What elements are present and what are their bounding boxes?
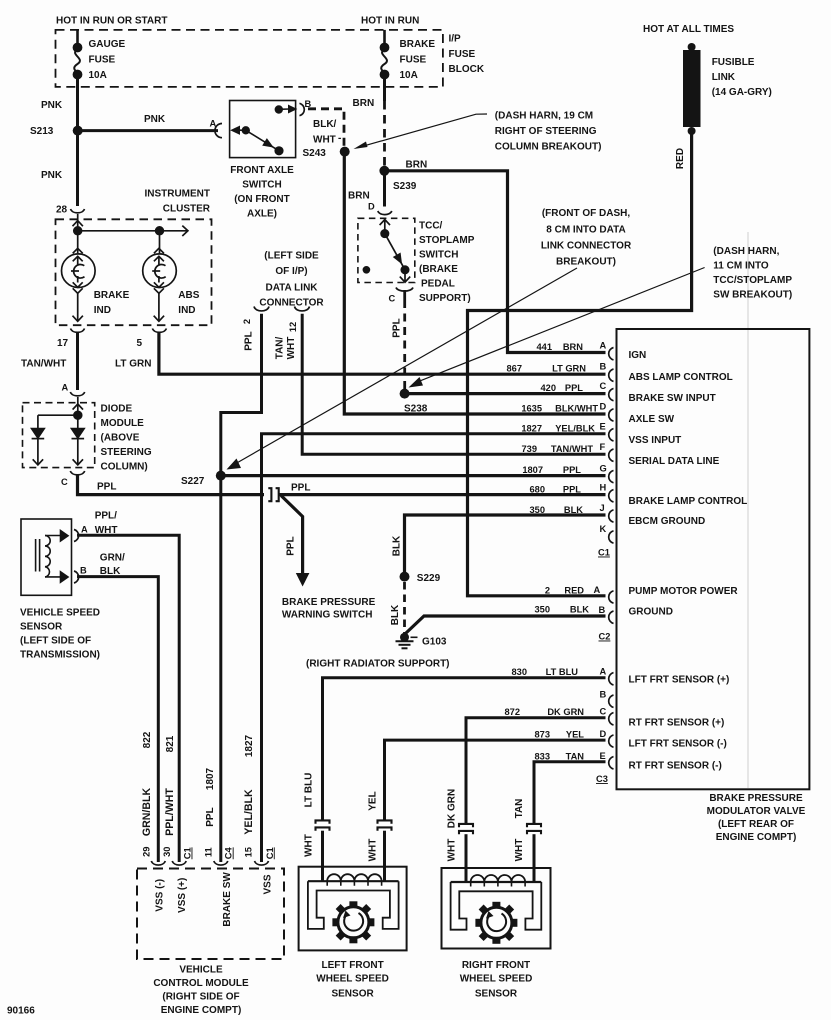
wire TAN/WHT DLC12 to pin F row	[302, 314, 605, 454]
svg-text:BRAKE SW INPUT: BRAKE SW INPUT	[629, 393, 716, 404]
wire BRN S239 to pin A row	[384, 171, 605, 353]
VCM pin 15	[255, 861, 269, 865]
svg-text:DK GRN: DK GRN	[547, 707, 584, 717]
wire PNK S213 to front axle switch A	[78, 129, 218, 132]
svg-text:IND: IND	[178, 305, 195, 316]
svg-text:YEL: YEL	[566, 730, 584, 740]
connector break left sensor wire 2	[378, 820, 392, 823]
connector break on PPL wire	[268, 488, 271, 501]
svg-text:BLOCK: BLOCK	[449, 64, 485, 75]
svg-text:822: 822	[142, 731, 153, 748]
svg-text:CONTROL MODULE: CONTROL MODULE	[153, 978, 249, 989]
svg-text:TCC/: TCC/	[419, 221, 443, 232]
svg-text:1827: 1827	[244, 734, 255, 757]
svg-text:RED: RED	[564, 586, 584, 596]
svg-text:739: 739	[521, 444, 537, 454]
svg-text:PPL/: PPL/	[95, 511, 117, 522]
svg-text:VEHICLE: VEHICLE	[179, 965, 223, 976]
wire 1807 PPL S227 to pin G row	[221, 474, 606, 477]
leader (DASH HARN, 11 CM INTO TCC/STOPLAMP SW BREAKOUT)	[414, 268, 705, 384]
svg-text:SENSOR: SENSOR	[20, 622, 63, 633]
label BRAKE PRESSURE MODULATOR VALVE (LEFT REAR OF ENGINE COMPT)	[707, 793, 806, 843]
svg-text:PPL: PPL	[205, 807, 216, 826]
svg-text:LT BLU: LT BLU	[304, 773, 315, 808]
label 680 PPL	[529, 485, 581, 495]
label 867 LT GRN	[506, 364, 586, 374]
svg-text:PPL: PPL	[565, 383, 583, 393]
wire RED fusible link to pump motor power pin A	[468, 131, 692, 596]
svg-text:PPL: PPL	[97, 482, 116, 493]
svg-text:J: J	[600, 503, 605, 513]
diode module box	[23, 403, 95, 468]
svg-text:VSS: VSS	[263, 874, 274, 894]
svg-text:INSTRUMENT: INSTRUMENT	[144, 189, 210, 200]
svg-text:BLK/: BLK/	[313, 119, 337, 130]
svg-text:YEL: YEL	[367, 791, 378, 810]
svg-text:H: H	[600, 483, 607, 493]
VCM pin 30	[172, 861, 186, 865]
svg-text:30: 30	[162, 847, 172, 857]
label FRONT AXLE SWITCH (ON FRONT AXLE)	[230, 165, 294, 220]
wire WHT into left sensor	[321, 831, 324, 881]
svg-text:680: 680	[529, 485, 545, 495]
svg-text:PPL: PPL	[392, 318, 403, 337]
diode module internals	[32, 397, 85, 465]
svg-text:WHT: WHT	[367, 839, 378, 862]
svg-text:BREAKOUT): BREAKOUT)	[556, 257, 616, 268]
svg-text:441: 441	[536, 342, 552, 352]
label 1635 BLK/WHT	[521, 404, 598, 414]
right sensor tone ring	[475, 902, 517, 944]
svg-text:F: F	[600, 442, 606, 452]
svg-text:LFT FRT SENSOR (-): LFT FRT SENSOR (-)	[629, 739, 727, 750]
node S239	[379, 166, 389, 176]
label 420 PPL	[540, 383, 583, 393]
svg-text:ABS LAMP CONTROL: ABS LAMP CONTROL	[629, 372, 733, 383]
svg-text:PPL/WHT: PPL/WHT	[164, 788, 176, 836]
svg-text:WHT: WHT	[304, 834, 315, 857]
label 2 RED	[545, 586, 584, 596]
leader (DASH HARN, 19 CM RIGHT OF STEERING COLUMN BREAKOUT)	[358, 114, 487, 148]
svg-text:BRN: BRN	[406, 160, 428, 171]
svg-text:WHEEL SPEED: WHEEL SPEED	[460, 974, 533, 985]
svg-text:DK GRN: DK GRN	[447, 789, 458, 828]
svg-text:RIGHT OF STEERING: RIGHT OF STEERING	[495, 126, 597, 137]
svg-text:GROUND: GROUND	[629, 607, 673, 618]
ground G103	[400, 633, 409, 642]
svg-text:K: K	[600, 524, 607, 534]
svg-text:PNK: PNK	[41, 100, 63, 111]
label BRAKE IND	[94, 290, 130, 316]
label 1807 PPL	[522, 465, 581, 475]
front axle switch box	[230, 101, 296, 158]
svg-text:PNK: PNK	[41, 170, 63, 181]
svg-text:WHT: WHT	[447, 839, 458, 862]
connector C TCC switch	[396, 288, 413, 292]
label RIGHT FRONT WHEEL SPEED SENSOR	[460, 960, 533, 1000]
connector break right sensor wire 2	[527, 824, 541, 827]
svg-text:RT FRT SENSOR (+): RT FRT SENSOR (+)	[629, 718, 725, 729]
right front wheel speed sensor box	[442, 868, 551, 949]
svg-text:BLK/WHT: BLK/WHT	[555, 404, 598, 414]
connector pin 5	[152, 329, 166, 333]
svg-text:RIGHT FRONT: RIGHT FRONT	[462, 960, 530, 971]
svg-text:MODULE: MODULE	[101, 418, 145, 429]
svg-text:FUSE: FUSE	[400, 55, 427, 66]
svg-text:B: B	[599, 605, 606, 615]
svg-text:WHT: WHT	[313, 135, 336, 146]
svg-text:ABS: ABS	[178, 290, 199, 301]
lamp BRAKE IND	[62, 248, 96, 321]
svg-text:VSS (-): VSS (-)	[154, 879, 165, 912]
label DIODE MODULE (ABOVE STEERING COLUMN)	[101, 404, 152, 473]
svg-text:BRN: BRN	[353, 98, 375, 109]
svg-text:28: 28	[56, 205, 68, 216]
svg-text:S227: S227	[181, 476, 205, 487]
svg-text:HOT IN RUN: HOT IN RUN	[361, 16, 419, 27]
svg-text:830: 830	[511, 667, 527, 677]
svg-text:C: C	[600, 707, 607, 717]
svg-text:C4: C4	[224, 847, 234, 860]
label 739 TAN/WHT	[521, 444, 593, 454]
svg-text:CLUSTER: CLUSTER	[163, 204, 211, 215]
svg-text:AXLE SW: AXLE SW	[629, 414, 675, 425]
svg-text:PNK: PNK	[144, 114, 166, 125]
connector A VSS	[74, 530, 79, 542]
svg-text:COLUMN BREAKOUT): COLUMN BREAKOUT)	[495, 142, 602, 153]
svg-text:G103: G103	[422, 637, 447, 648]
wire PPL TCC C to S238 (dashed)	[403, 290, 406, 300]
svg-text:12: 12	[288, 322, 298, 332]
right sensor internals	[451, 875, 542, 930]
svg-text:COLUMN): COLUMN)	[101, 462, 148, 473]
svg-text:LT GRN: LT GRN	[552, 364, 586, 374]
svg-text:C3: C3	[596, 774, 608, 784]
svg-text:WARNING SWITCH: WARNING SWITCH	[282, 610, 373, 621]
svg-text:AXLE): AXLE)	[247, 209, 277, 220]
svg-text:867: 867	[506, 364, 522, 374]
wire BLK/WHT S243 down to pin D row	[344, 152, 605, 414]
label GRN/ BLK	[100, 553, 125, 578]
wire 873 YEL pin D C3 to left sensor	[385, 740, 606, 820]
svg-text:C: C	[61, 477, 68, 487]
svg-text:(BRAKE: (BRAKE	[419, 264, 458, 275]
label LEFT FRONT WHEEL SPEED SENSOR	[316, 960, 389, 1000]
svg-text:5: 5	[137, 338, 143, 349]
svg-text:GAUGE: GAUGE	[89, 39, 126, 50]
svg-text:1807: 1807	[205, 767, 216, 790]
node S227	[216, 471, 226, 481]
svg-text:TCC/STOPLAMP: TCC/STOPLAMP	[713, 275, 792, 286]
svg-text:S239: S239	[393, 181, 417, 192]
label INSTRUMENT CLUSTER	[144, 189, 210, 215]
wire 350 BLK pin J to S229	[405, 515, 606, 572]
svg-text:BRAKE PRESSURE: BRAKE PRESSURE	[709, 793, 803, 804]
svg-text:DATA LINK: DATA LINK	[265, 282, 318, 293]
svg-text:B: B	[600, 690, 607, 700]
svg-text:15: 15	[244, 847, 254, 857]
svg-text:PEDAL: PEDAL	[421, 279, 455, 290]
label PPL/ WHT	[95, 511, 118, 537]
svg-text:PUMP MOTOR POWER: PUMP MOTOR POWER	[629, 586, 739, 597]
svg-text:S229: S229	[417, 573, 441, 584]
connector B front axle switch	[300, 103, 305, 115]
svg-text:S213: S213	[30, 126, 54, 137]
svg-text:350: 350	[534, 605, 550, 615]
svg-text:LT GRN: LT GRN	[115, 359, 151, 370]
label DATA LINK CONNECTOR	[259, 251, 324, 309]
wire BRN brake fuse to S239 (dashed)	[383, 75, 386, 102]
svg-text:PPL: PPL	[291, 483, 310, 494]
svg-text:C1: C1	[265, 847, 275, 859]
svg-text:PPL: PPL	[563, 465, 581, 475]
svg-text:SWITCH: SWITCH	[419, 250, 458, 261]
connector B VSS	[74, 571, 79, 583]
wire PPL diode C to pin H row	[78, 475, 265, 495]
svg-text:BRAKE: BRAKE	[400, 39, 436, 50]
svg-text:IGN: IGN	[629, 350, 647, 361]
svg-text:YEL/BLK: YEL/BLK	[243, 789, 255, 835]
svg-text:(ON FRONT: (ON FRONT	[234, 194, 290, 205]
svg-text:(RIGHT RADIATOR SUPPORT): (RIGHT RADIATOR SUPPORT)	[306, 659, 450, 670]
svg-text:BRAKE LAMP CONTROL: BRAKE LAMP CONTROL	[629, 496, 748, 507]
svg-text:GRN/: GRN/	[100, 553, 125, 564]
svg-text:E: E	[600, 422, 606, 432]
label TCC/ STOPLAMP SWITCH (BRAKE PEDAL SUPPORT)	[419, 221, 475, 305]
lamp ABS IND	[143, 248, 177, 321]
label VEHICLE SPEED SENSOR (LEFT SIDE OF TRANSMISSION)	[20, 608, 100, 661]
wire PPL DLC2 to S227	[221, 314, 262, 471]
svg-text:LT BLU: LT BLU	[546, 667, 579, 677]
svg-text:S238: S238	[404, 404, 428, 415]
label ABS IND	[178, 290, 199, 316]
svg-text:C1: C1	[598, 548, 610, 558]
svg-text:B: B	[80, 566, 87, 576]
svg-text:29: 29	[141, 847, 151, 857]
svg-text:OF I/P): OF I/P)	[275, 266, 307, 277]
instrument cluster box	[56, 219, 212, 325]
svg-text:11 CM INTO: 11 CM INTO	[713, 261, 769, 272]
svg-text:C2: C2	[599, 632, 611, 642]
svg-text:BRAKE: BRAKE	[94, 290, 130, 301]
wire PPL break to pin H row	[278, 493, 606, 496]
svg-text:RT FRT SENSOR (-): RT FRT SENSOR (-)	[629, 761, 722, 772]
svg-text:S243: S243	[303, 148, 327, 159]
label 830 LT BLU	[511, 667, 578, 677]
svg-text:(FRONT OF DASH,: (FRONT OF DASH,	[542, 208, 631, 219]
BPMV box	[617, 329, 810, 789]
svg-text:E: E	[600, 751, 606, 761]
svg-text:873: 873	[534, 730, 550, 740]
svg-text:D: D	[600, 729, 607, 739]
node S243	[340, 147, 350, 157]
svg-text:FUSE: FUSE	[89, 55, 116, 66]
svg-text:C: C	[389, 294, 396, 304]
svg-text:1807: 1807	[522, 465, 543, 475]
connector DLC pin 12	[295, 307, 310, 311]
svg-text:VSS INPUT: VSS INPUT	[629, 435, 682, 446]
left sensor internals	[308, 874, 399, 929]
svg-text:1827: 1827	[521, 424, 542, 434]
svg-text:(LEFT SIDE OF: (LEFT SIDE OF	[20, 636, 91, 647]
svg-text:VEHICLE SPEED: VEHICLE SPEED	[20, 608, 100, 619]
svg-text:GRN/BLK: GRN/BLK	[141, 788, 153, 837]
svg-text:IND: IND	[94, 305, 111, 316]
svg-text:A: A	[600, 341, 607, 351]
svg-text:10A: 10A	[89, 70, 107, 81]
label 350 BLK	[529, 505, 583, 515]
svg-text:FRONT AXLE: FRONT AXLE	[230, 165, 294, 176]
label 1827 YEL/BLK	[521, 424, 595, 434]
svg-text:90166: 90166	[7, 1006, 35, 1017]
wire 833 TAN pin E C3 to right sensor	[534, 762, 606, 824]
wire 350 BLK G103 to pin B C2	[406, 616, 606, 634]
svg-text:(ABOVE: (ABOVE	[101, 433, 140, 444]
I/P fuse block box	[56, 30, 443, 87]
svg-text:TAN/WHT: TAN/WHT	[21, 359, 66, 370]
wire LT GRN pin5 to pin B row	[159, 333, 606, 374]
svg-text:833: 833	[534, 752, 550, 762]
svg-text:TRANSMISSION): TRANSMISSION)	[20, 650, 100, 661]
svg-text:ENGINE COMPT): ENGINE COMPT)	[716, 832, 797, 843]
svg-text:EBCM GROUND: EBCM GROUND	[629, 516, 706, 527]
svg-text:SWITCH: SWITCH	[242, 180, 281, 191]
svg-text:TAN: TAN	[514, 799, 525, 819]
wire WHT into left sensor	[383, 831, 386, 881]
VCM pin 29	[151, 861, 165, 865]
svg-text:B: B	[600, 362, 607, 372]
svg-text:SENSOR: SENSOR	[475, 989, 518, 1000]
VCM pin 11	[214, 861, 228, 865]
wire 1827 YEL/BLK pin E row to VCM pin 15	[262, 434, 606, 862]
svg-text:HOT IN RUN OR START: HOT IN RUN OR START	[56, 16, 167, 27]
svg-text:(RIGHT SIDE OF: (RIGHT SIDE OF	[162, 992, 239, 1003]
svg-text:STOPLAMP: STOPLAMP	[419, 235, 475, 246]
wire S239 down to TCC switch D	[383, 171, 386, 207]
node S213	[73, 126, 83, 136]
connector DLC pin 2	[254, 307, 269, 311]
VSS internals	[36, 531, 68, 583]
svg-text:2: 2	[545, 586, 550, 596]
fuse GAUGE FUSE 10A	[74, 30, 81, 78]
wire PPL branch to brake pressure warning switch	[281, 496, 303, 575]
svg-text:TAN/WHT: TAN/WHT	[551, 444, 593, 454]
svg-text:SENSOR: SENSOR	[331, 989, 374, 1000]
svg-text:BRAKE PRESSURE: BRAKE PRESSURE	[282, 597, 376, 608]
left front wheel speed sensor box	[299, 867, 407, 951]
svg-text:WHEEL SPEED: WHEEL SPEED	[316, 974, 389, 985]
svg-text:G: G	[600, 464, 607, 474]
svg-text:SUPPORT): SUPPORT)	[419, 293, 471, 304]
front axle switch contacts	[232, 106, 296, 155]
svg-text:RED: RED	[675, 148, 686, 169]
wire PNK fuse to S213	[76, 75, 79, 128]
svg-text:VSS (+): VSS (+)	[177, 878, 188, 913]
wire GRN/BLK VSS B to VCM pin 29	[77, 577, 158, 862]
svg-text:C: C	[600, 381, 607, 391]
wire PNK S213 down to cluster pin 28	[76, 131, 79, 206]
svg-text:8 CM INTO DATA: 8 CM INTO DATA	[546, 224, 625, 235]
svg-text:821: 821	[165, 735, 176, 752]
connector break right sensor wire 1	[459, 824, 473, 827]
label 350 BLK	[534, 605, 589, 615]
svg-text:(LEFT SIDE: (LEFT SIDE	[264, 251, 319, 262]
svg-text:MODULATOR VALVE: MODULATOR VALVE	[707, 806, 806, 817]
svg-text:PPL: PPL	[286, 536, 297, 555]
svg-text:C1: C1	[183, 847, 193, 859]
svg-text:A: A	[594, 585, 601, 595]
svg-text:A: A	[600, 667, 607, 677]
svg-text:D: D	[600, 402, 607, 412]
svg-text:1635: 1635	[521, 404, 542, 414]
svg-text:DIODE: DIODE	[101, 404, 133, 415]
wire PPL/WHT VSS A to VCM pin 30	[77, 535, 179, 862]
svg-text:11: 11	[204, 847, 214, 857]
svg-text:BLK: BLK	[390, 604, 401, 625]
connector pin 17	[71, 329, 85, 333]
svg-text:I/P: I/P	[449, 34, 462, 45]
svg-text:-: -	[338, 133, 341, 144]
label 873 YEL	[534, 730, 584, 740]
label 872 DK GRN	[504, 707, 584, 717]
svg-text:A: A	[62, 383, 69, 393]
svg-text:(14 GA-GRY): (14 GA-GRY)	[712, 87, 772, 98]
svg-text:LFT FRT SENSOR (+): LFT FRT SENSOR (+)	[629, 675, 730, 686]
svg-text:872: 872	[504, 707, 520, 717]
cluster internal wiring	[73, 214, 188, 253]
wire BLK S229 to G103 (dashed)	[403, 582, 406, 633]
TCC/stoplamp switch box	[358, 218, 415, 282]
svg-text:ENGINE COMPT): ENGINE COMPT)	[161, 1005, 242, 1016]
VCM box	[137, 869, 284, 960]
wire BLK/WHT from B to S243 (dashed)	[308, 109, 344, 146]
label 441 BRN	[536, 342, 583, 352]
connector break left sensor wire 1	[316, 820, 330, 823]
svg-text:WHT: WHT	[514, 839, 525, 862]
svg-text:TAN/: TAN/	[275, 336, 286, 359]
wire WHT into right sensor	[533, 834, 536, 882]
wire 420 PPL S238 to pin C row	[405, 392, 606, 395]
fuse BRAKE FUSE 10A	[381, 30, 388, 78]
svg-text:FUSE: FUSE	[449, 49, 476, 60]
svg-text:17: 17	[57, 338, 69, 349]
svg-text:BLK: BLK	[392, 535, 403, 556]
VSS box	[21, 519, 72, 595]
svg-text:BRAKE SW: BRAKE SW	[222, 872, 233, 927]
svg-text:HOT AT ALL TIMES: HOT AT ALL TIMES	[643, 24, 734, 35]
svg-text:BLK: BLK	[570, 605, 589, 615]
svg-text:FUSIBLE: FUSIBLE	[712, 57, 755, 68]
label VEHICLE CONTROL MODULE (RIGHT SIDE OF ENGINE COMPT)	[153, 965, 249, 1017]
svg-text:PPL: PPL	[563, 485, 581, 495]
svg-text:BRN: BRN	[348, 191, 370, 202]
node S229	[400, 572, 410, 582]
svg-text:LEFT FRONT: LEFT FRONT	[321, 960, 383, 971]
wire 1807 PPL S227 down to VCM pin 11	[219, 476, 222, 862]
svg-text:2: 2	[242, 319, 252, 324]
left sensor tone ring	[332, 901, 374, 943]
svg-text:D: D	[368, 202, 375, 212]
label I/P FUSE BLOCK	[449, 34, 485, 76]
leader (FRONT OF DASH, 8 CM INTO DATA LINK CONNECTOR BREAKOUT)	[232, 268, 578, 466]
scan artifact fold line	[747, 232, 749, 788]
wire WHT into right sensor	[465, 834, 468, 882]
wire 872 DK GRN pin C C3 to right sensor	[466, 718, 606, 824]
svg-text:PPL: PPL	[244, 331, 255, 350]
svg-text:(DASH HARN,: (DASH HARN,	[713, 246, 779, 257]
svg-text:WHT: WHT	[286, 337, 297, 360]
svg-text:LINK: LINK	[712, 72, 736, 83]
